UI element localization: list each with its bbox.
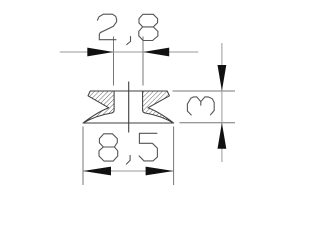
suction cup section: right half (flange + lip), hatched (143, 91, 174, 123)
part bottom lip edge line (83, 122, 174, 124)
arrowhead top of 3 (points down) (218, 65, 227, 91)
arrowhead left of 2,8 (points right) (87, 48, 113, 57)
dim text digit 3 (rotated 90, reads from right) (187, 97, 214, 115)
arrowhead bottom of 3 (points up) (218, 123, 227, 149)
suction cup section: left half (flange + lip), hatched (83, 91, 114, 123)
dim text comma of 8,5 (126, 155, 130, 164)
extension line top of dim 3 (173, 90, 236, 92)
extension line right of dim 8,5 (173, 127, 175, 186)
dimension line 2,8 (60, 51, 199, 53)
dim text digit 5 (139, 133, 158, 161)
extension line right of dim 2,8 (142, 37, 144, 86)
dim text digit 8 of 8,5 (99, 134, 118, 161)
arrowhead right of 2,8 (points left) (143, 48, 169, 57)
centerline (128, 82, 130, 133)
dim text digit 8 (139, 14, 158, 40)
extension line bottom of dim 3 (180, 122, 236, 124)
dim text digit 2 (97, 14, 116, 40)
dimension line 8,5 (83, 170, 174, 172)
arrowhead right of 8,5 (points right) (146, 167, 174, 176)
arrowhead left of 8,5 (points left) (83, 167, 111, 176)
extension line left of dim 8,5 (82, 127, 84, 186)
dimension line 3 (vertical) (221, 43, 223, 162)
dim text comma of 2,8 (126, 36, 130, 45)
extension line left of dim 2,8 (113, 37, 115, 86)
part top edge (90, 90, 167, 92)
